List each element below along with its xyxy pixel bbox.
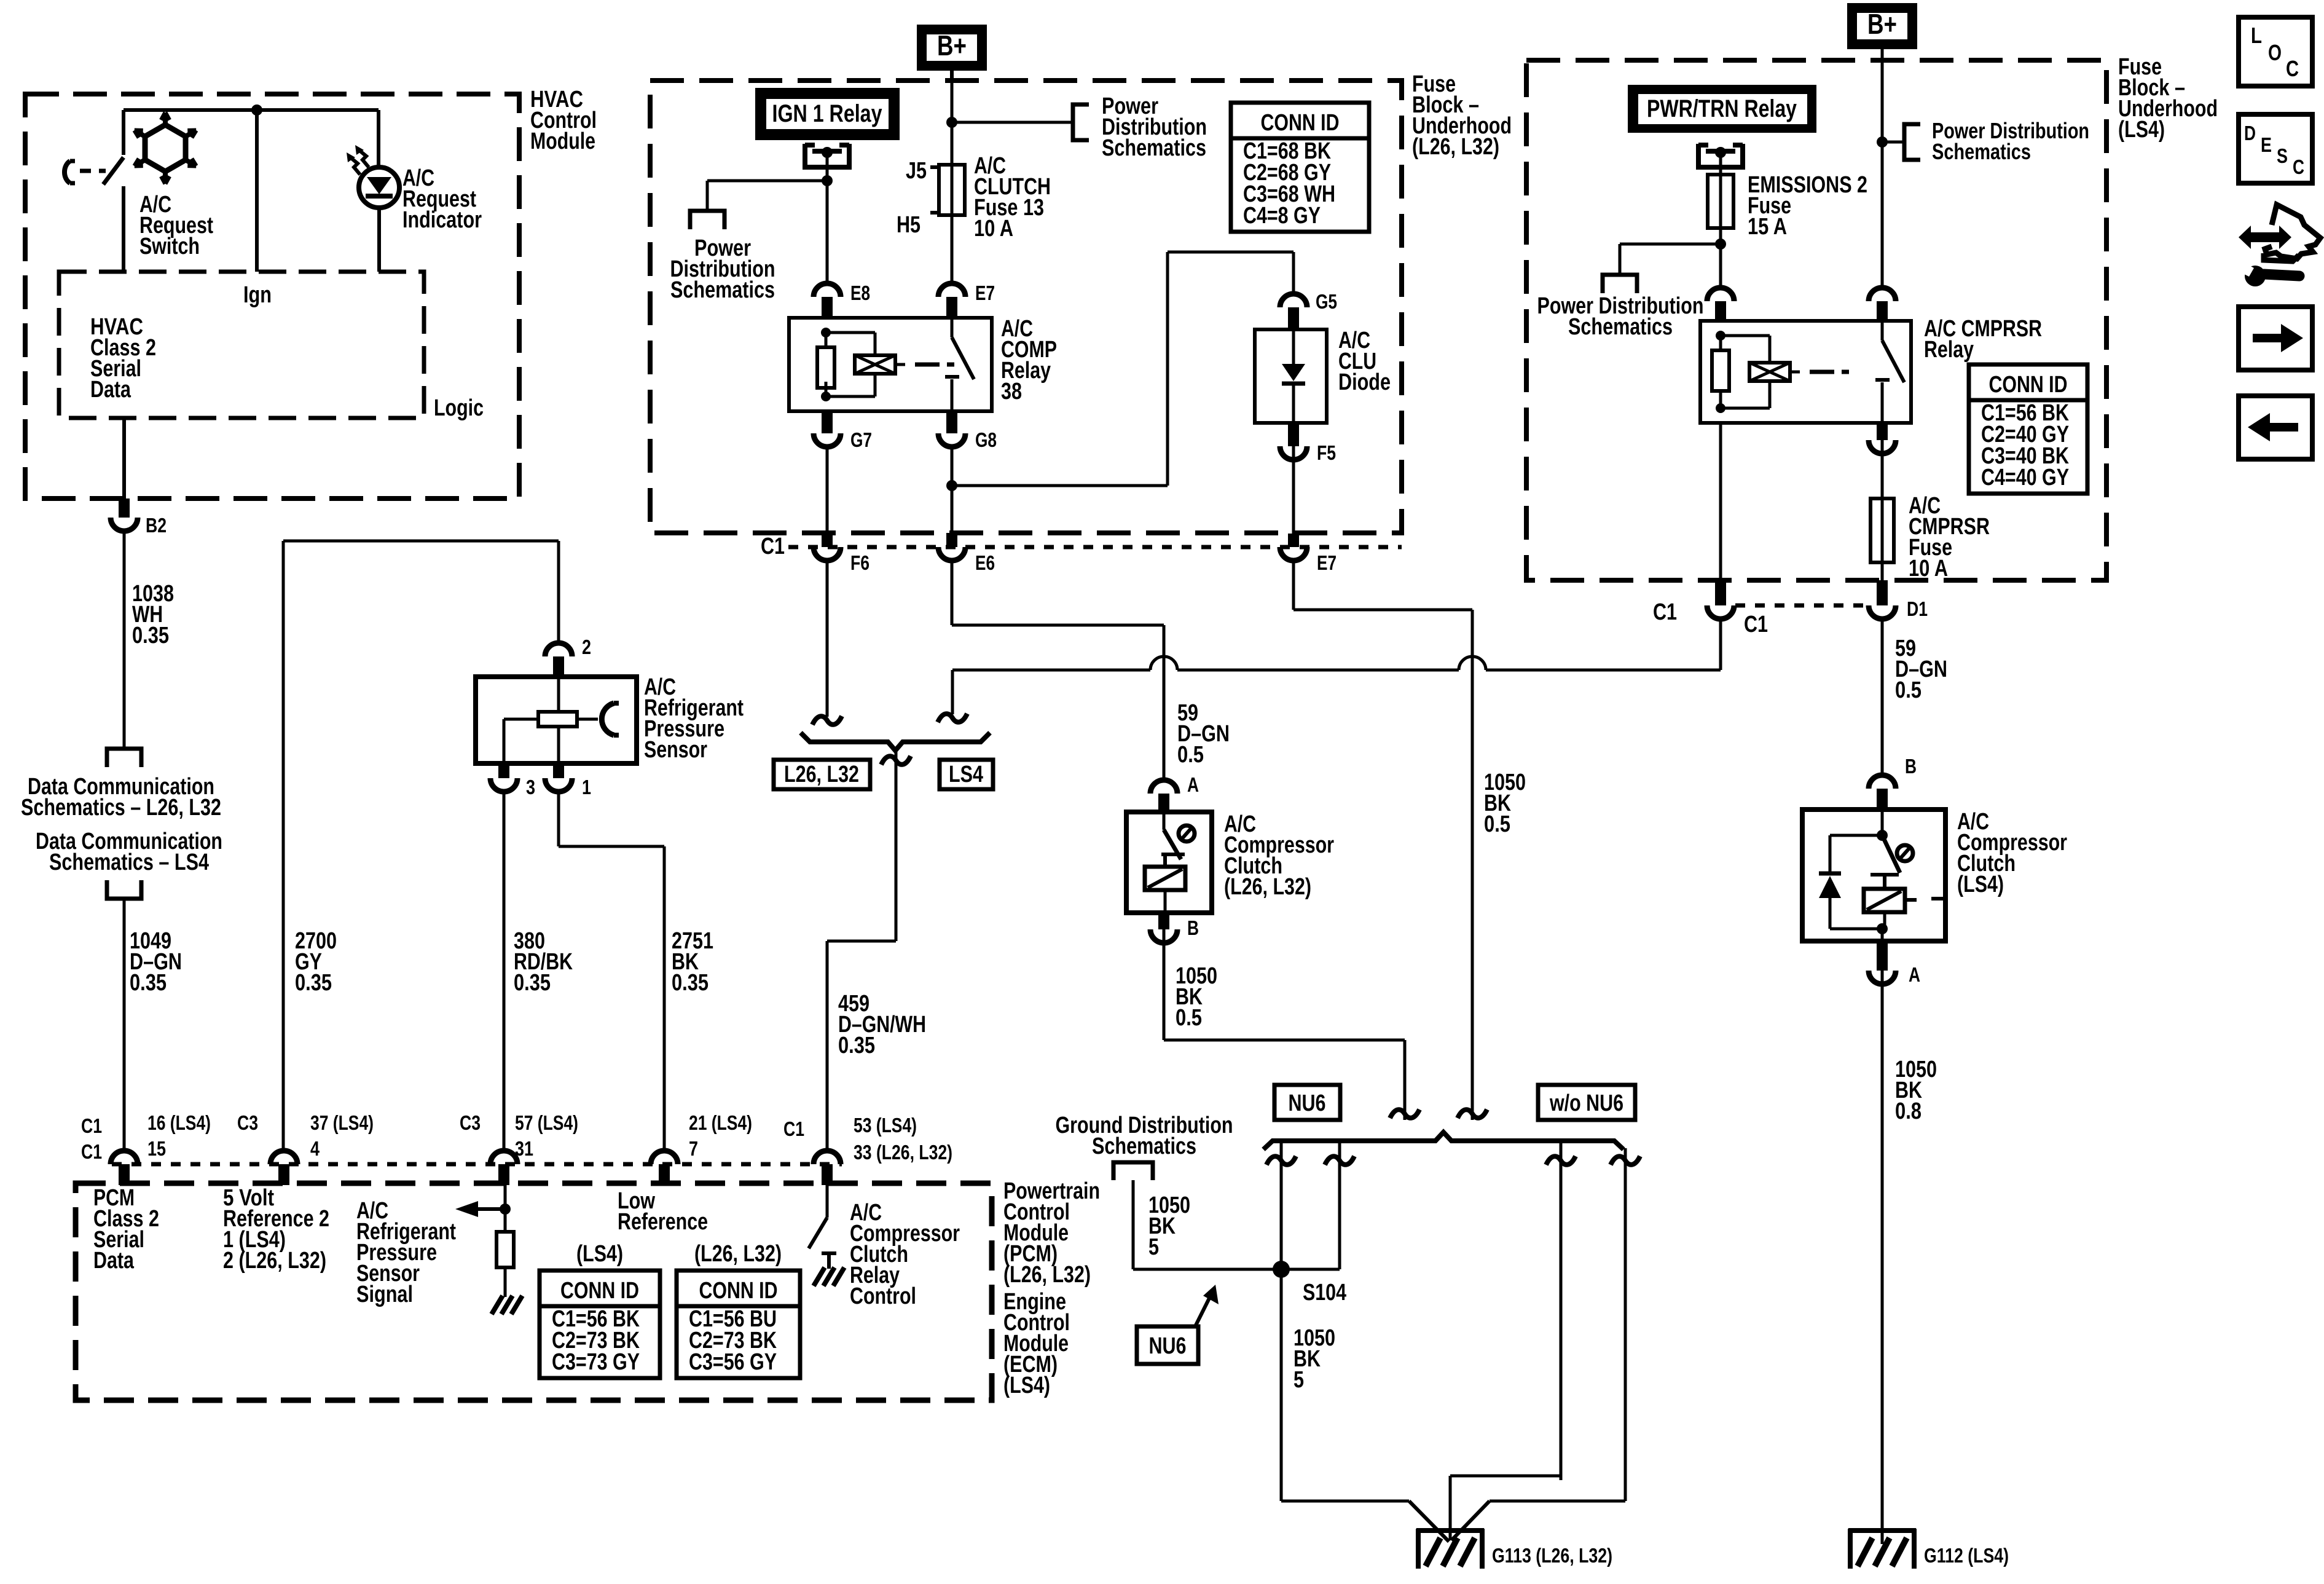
svg-text:C1: C1 bbox=[81, 1114, 102, 1137]
svg-text:4: 4 bbox=[310, 1137, 320, 1160]
svg-text:G112 (LS4): G112 (LS4) bbox=[1924, 1544, 2009, 1567]
NU6 callout box bbox=[1137, 1326, 1198, 1364]
svg-text:0.8: 0.8 bbox=[1895, 1098, 1922, 1124]
svg-text:53 (LS4): 53 (LS4) bbox=[854, 1114, 917, 1137]
previous page icon bbox=[2239, 396, 2312, 459]
svg-text:LS4: LS4 bbox=[949, 762, 983, 787]
svg-text:57 (LS4): 57 (LS4) bbox=[515, 1111, 578, 1134]
bracket to power distribution schematics (B+) bbox=[1073, 104, 1089, 140]
wire PWR/TRN to splice (59 D-GN) bbox=[1719, 620, 1722, 670]
wire w/o NU6 ground 3 bbox=[1560, 1142, 1563, 1480]
wire from ground distribution bbox=[1132, 1180, 1135, 1269]
wire: class 2 serial data out bbox=[122, 418, 126, 515]
node S104 bbox=[1273, 1261, 1290, 1278]
svg-text:(L26, L32): (L26, L32) bbox=[694, 1241, 782, 1267]
LS4 connector line C1-D1 bbox=[1735, 604, 1870, 608]
svg-text:C1: C1 bbox=[1653, 599, 1677, 625]
wire fuse to relay coil bbox=[1719, 228, 1722, 287]
connector arc x=1346 bbox=[814, 1151, 841, 1164]
svg-text:0.5: 0.5 bbox=[1484, 811, 1510, 837]
connector E6 bbox=[946, 533, 957, 547]
wire E7 to ground splice (1050 BK) bbox=[1292, 561, 1295, 610]
svg-text:w/o NU6: w/o NU6 bbox=[1549, 1090, 1623, 1116]
wire from B+ bbox=[950, 71, 954, 81]
w/o NU6 tag box bbox=[1538, 1085, 1635, 1120]
svg-text:G8: G8 bbox=[975, 428, 997, 451]
svg-text:CONN ID: CONN ID bbox=[1261, 110, 1340, 136]
wire from B+ right bbox=[1881, 49, 1884, 286]
sensor signal arrow bbox=[476, 1207, 505, 1211]
svg-text:0.5: 0.5 bbox=[1176, 1005, 1202, 1031]
svg-text:(L26, L32): (L26, L32) bbox=[1412, 134, 1499, 160]
svg-text:16 (LS4): 16 (LS4) bbox=[147, 1111, 211, 1134]
svg-text:CONN ID: CONN ID bbox=[1989, 372, 2068, 398]
svg-text:E6: E6 bbox=[975, 551, 995, 574]
svg-text:Reference: Reference bbox=[618, 1209, 708, 1235]
A/C CMPRSR fuse bbox=[1871, 498, 1894, 562]
svg-text:G113 (L26, L32): G113 (L26, L32) bbox=[1492, 1544, 1612, 1567]
svg-text:B: B bbox=[1905, 755, 1917, 778]
svg-text:B2: B2 bbox=[146, 514, 167, 537]
svg-text:Switch: Switch bbox=[139, 234, 200, 259]
service tool icon bbox=[2239, 226, 2291, 249]
node G8 to diode loop bbox=[946, 480, 957, 491]
svg-text:A: A bbox=[1909, 963, 1920, 986]
node on 57/31 wire bbox=[504, 1185, 507, 1232]
svg-text:Schematics: Schematics bbox=[1568, 314, 1673, 340]
connector arc x=820 bbox=[490, 1151, 517, 1164]
bracket ground distribution bbox=[1113, 1162, 1153, 1180]
svg-text:PWR/TRN Relay: PWR/TRN Relay bbox=[1647, 95, 1797, 122]
battery feed B+ (left) bbox=[917, 25, 987, 71]
connector E7 (relay) bbox=[938, 283, 965, 297]
clutch coil LS4 bbox=[1864, 889, 1905, 912]
svg-text:Logic: Logic bbox=[434, 395, 484, 421]
svg-text:S104: S104 bbox=[1303, 1280, 1346, 1306]
LS4 tag box bbox=[940, 760, 993, 789]
PCM connector line bbox=[112, 1162, 842, 1167]
clutch coil L26 bbox=[1145, 867, 1185, 890]
wire 2751 BK bbox=[557, 792, 560, 846]
wire G7 to F6 bbox=[826, 447, 829, 533]
IGN 1 relay pin bbox=[805, 144, 849, 167]
wire NU6 ground 2 bbox=[1338, 1142, 1341, 1269]
sensor element bbox=[557, 677, 560, 712]
svg-text:5: 5 bbox=[1294, 1367, 1304, 1393]
bracket to power distribution schematics LS4 bbox=[1904, 124, 1920, 160]
wire clutch LS4 to G112 bbox=[1881, 971, 1884, 1544]
wire NU6 ground 1 bbox=[1280, 1142, 1283, 1501]
IGN 1 Relay label box bbox=[755, 88, 900, 140]
svg-text:3: 3 bbox=[526, 776, 535, 798]
A/C refrigerant pressure sensor box bbox=[476, 677, 637, 763]
svg-text:G7: G7 bbox=[850, 428, 872, 451]
connector D1 bbox=[1877, 580, 1888, 605]
svg-text:0.35: 0.35 bbox=[838, 1033, 875, 1058]
connector G7 bbox=[822, 411, 833, 433]
wire S104 to G113 bbox=[1281, 1500, 1409, 1503]
svg-text:C1: C1 bbox=[81, 1140, 102, 1163]
wire PWR/TRN relay coil return bbox=[1719, 423, 1722, 590]
wire end squiggle F6 bbox=[812, 716, 842, 725]
wire E6 branch to clutch A bbox=[951, 561, 954, 625]
connector arc x=462 bbox=[270, 1151, 297, 1164]
svg-text:L26, L32: L26, L32 bbox=[784, 762, 859, 787]
svg-text:(L26, L32): (L26, L32) bbox=[1003, 1262, 1091, 1288]
node to power distribution (emissions) bbox=[1715, 238, 1726, 250]
svg-text:Indicator: Indicator bbox=[402, 207, 482, 233]
LED arrows bbox=[359, 150, 369, 167]
connector 3 sensor bbox=[498, 763, 509, 778]
svg-text:Control: Control bbox=[850, 1283, 916, 1309]
svg-text:5: 5 bbox=[1148, 1234, 1159, 1260]
svg-text:C1: C1 bbox=[1744, 612, 1768, 637]
wire: Ign line bbox=[255, 110, 259, 272]
ground G112 bbox=[1848, 1528, 1916, 1533]
connector B clutch L26 bbox=[1158, 913, 1169, 929]
PCM CONN ID table L26 L32 bbox=[677, 1271, 800, 1378]
ground wires squiggles bbox=[1266, 1156, 1296, 1165]
PCM ECM module box bbox=[76, 1183, 992, 1400]
wire F5 to E7 connector bbox=[1292, 446, 1295, 534]
connector F5 bbox=[1288, 423, 1299, 446]
svg-text:Schematics: Schematics bbox=[1102, 135, 1206, 161]
wire D1 to clutch LS4 bbox=[1881, 619, 1884, 773]
switch actuator dashes bbox=[80, 169, 106, 173]
svg-text:D1: D1 bbox=[1907, 597, 1928, 620]
svg-text:CONN ID: CONN ID bbox=[699, 1278, 778, 1304]
svg-text:1: 1 bbox=[582, 776, 591, 798]
svg-text:Data: Data bbox=[93, 1248, 135, 1274]
svg-text:F6: F6 bbox=[850, 551, 870, 574]
connector B2 bbox=[119, 498, 130, 518]
svg-text:(LS4): (LS4) bbox=[2118, 117, 2165, 143]
svg-text:15 A: 15 A bbox=[1748, 214, 1787, 240]
A/C CLU Diode box bbox=[1255, 329, 1327, 423]
svg-text:Relay: Relay bbox=[1924, 337, 1974, 363]
wire F6 to splice bbox=[826, 561, 829, 717]
svg-text:C1: C1 bbox=[783, 1117, 804, 1140]
clutch coil return LS4 bbox=[1883, 912, 1886, 929]
svg-text:(LS4): (LS4) bbox=[1003, 1373, 1050, 1398]
svg-text:C3=73 GY: C3=73 GY bbox=[552, 1349, 640, 1375]
svg-text:C: C bbox=[2293, 156, 2304, 178]
node clutch LS4 top bbox=[1877, 830, 1888, 841]
A/C request switch blade bbox=[122, 110, 125, 155]
wire from PWR/TRN relay bbox=[1719, 152, 1722, 176]
Fuse Block Underhood LS4 box bbox=[1526, 60, 2106, 580]
svg-text:0.35: 0.35 bbox=[132, 623, 169, 648]
wire end squiggle E7 gnd bbox=[1458, 1109, 1487, 1118]
svg-text:0.35: 0.35 bbox=[514, 970, 551, 996]
svg-text:Ign: Ign bbox=[243, 282, 272, 308]
PWR/TRN Relay label box bbox=[1628, 85, 1816, 133]
clutch switch blade LS4 bbox=[1882, 835, 1900, 873]
connector A clutch L26 bbox=[1150, 780, 1177, 794]
NU6 arrow bbox=[1195, 1293, 1212, 1326]
A/C Compressor Clutch LS4 box bbox=[1802, 810, 1945, 941]
svg-text:0.35: 0.35 bbox=[672, 970, 709, 996]
svg-text:J5: J5 bbox=[906, 158, 927, 184]
next page icon bbox=[2239, 307, 2312, 370]
relay A/C CMPRSR Relay bbox=[1700, 321, 1911, 423]
PCM CONN ID table LS4 bbox=[540, 1271, 660, 1378]
clutch switch blade L26 bbox=[1164, 830, 1181, 859]
bracket to power distribution schematics (IGN1) bbox=[690, 211, 724, 229]
connector F6 bbox=[822, 533, 833, 547]
wire: switch/indicator top rail bbox=[124, 108, 379, 112]
wire end squiggle LS4 feed bbox=[938, 714, 967, 722]
svg-text:Sensor: Sensor bbox=[644, 737, 707, 763]
bracket power distribution (emissions) bbox=[1603, 275, 1637, 293]
splice squiggle bbox=[881, 756, 911, 765]
wire splice to PCM 53/33 bbox=[895, 752, 898, 941]
pull resistor in PCM bbox=[497, 1232, 514, 1267]
wire 2700 GY sensor feed bbox=[282, 541, 285, 1151]
svg-text:Schematics: Schematics bbox=[670, 277, 775, 303]
wire w/o NU6 ground 4 bbox=[1624, 1148, 1627, 1501]
svg-text:0.5: 0.5 bbox=[1895, 677, 1922, 703]
svg-text:F5: F5 bbox=[1317, 441, 1336, 464]
svg-text:Schematics – L26, L32: Schematics – L26, L32 bbox=[21, 795, 221, 821]
connector below relay LS4 bbox=[1877, 423, 1888, 440]
svg-text:7: 7 bbox=[689, 1137, 698, 1160]
svg-text:0.35: 0.35 bbox=[295, 970, 332, 996]
wire clutch B to ground splice bbox=[1163, 929, 1166, 1040]
wire from IGN 1 relay bbox=[826, 152, 829, 282]
Fuse Block Underhood L26 L32 box bbox=[650, 81, 1402, 533]
svg-text:A: A bbox=[1187, 773, 1199, 796]
connector C1 PWR/TRN bbox=[1715, 580, 1726, 605]
svg-text:2: 2 bbox=[582, 636, 591, 658]
svg-text:D: D bbox=[2244, 122, 2256, 144]
DESC icon bbox=[2239, 114, 2312, 183]
svg-text:C: C bbox=[2286, 56, 2299, 81]
snowflake icon bbox=[145, 125, 186, 171]
connector coil PWR/TRN bbox=[1707, 288, 1734, 301]
svg-text:Signal: Signal bbox=[356, 1282, 413, 1307]
svg-text:CONN ID: CONN ID bbox=[560, 1278, 639, 1304]
svg-text:(LS4): (LS4) bbox=[576, 1241, 623, 1267]
connector B clutch LS4 bbox=[1869, 775, 1896, 789]
svg-text:C3=56 GY: C3=56 GY bbox=[689, 1349, 777, 1375]
ground in PCM (sensor) bbox=[492, 1296, 503, 1314]
svg-text:L: L bbox=[2251, 23, 2262, 48]
svg-text:C3: C3 bbox=[460, 1111, 481, 1134]
node to power distribution bbox=[946, 117, 957, 128]
ground splice brace bbox=[1263, 1132, 1623, 1149]
hop over clutch wire bbox=[1150, 656, 1177, 670]
connector G8 bbox=[946, 411, 957, 433]
hop over 1050 BK wire bbox=[1459, 656, 1486, 670]
svg-text:0.5: 0.5 bbox=[1177, 742, 1204, 768]
battery feed B+ (right) bbox=[1847, 3, 1917, 49]
svg-text:E8: E8 bbox=[850, 282, 870, 304]
connector A clutch LS4 bbox=[1877, 941, 1888, 971]
connector E8 bbox=[814, 283, 841, 297]
svg-text:B+: B+ bbox=[937, 30, 967, 61]
wire: 1049 D-GN to PCM bbox=[123, 899, 126, 1151]
svg-text:G5: G5 bbox=[1316, 290, 1337, 313]
svg-text:B: B bbox=[1187, 916, 1199, 939]
HVAC logic box bbox=[59, 272, 424, 418]
svg-text:10 A: 10 A bbox=[974, 216, 1013, 242]
wire diode loop bbox=[952, 484, 1168, 487]
svg-text:Schematics: Schematics bbox=[1092, 1133, 1196, 1159]
CONN ID table fuse block L26 L32 bbox=[1231, 103, 1369, 232]
connector switch PWR/TRN bbox=[1869, 288, 1896, 301]
CONN ID table LS4 fuse block bbox=[1969, 364, 2087, 494]
svg-text:E7: E7 bbox=[1317, 551, 1337, 574]
LOC icon bbox=[2239, 17, 2312, 86]
A/C request indicator LED bbox=[377, 110, 380, 167]
bracket to data communication schematics bbox=[107, 749, 141, 767]
svg-text:Schematics: Schematics bbox=[1932, 139, 2031, 164]
svg-text:Data: Data bbox=[90, 377, 132, 403]
svg-text:C4=8 GY: C4=8 GY bbox=[1243, 203, 1321, 229]
ground in PCM (relay control) bbox=[814, 1267, 825, 1286]
svg-text:S: S bbox=[2277, 144, 2288, 167]
A/C CLUTCH fuse 13 bbox=[951, 166, 954, 184]
svg-text:E7: E7 bbox=[975, 282, 995, 304]
node to power distribution (IGN1) bbox=[822, 175, 833, 186]
fuse block connector line C1 bbox=[788, 545, 1402, 550]
svg-text:B+: B+ bbox=[1867, 8, 1897, 40]
svg-text:IGN 1 Relay: IGN 1 Relay bbox=[772, 100, 883, 127]
HVAC Control Module box bbox=[25, 94, 519, 498]
bracket from data communication schematics bbox=[107, 880, 141, 899]
svg-text:15: 15 bbox=[147, 1137, 166, 1160]
svg-text:37 (LS4): 37 (LS4) bbox=[310, 1111, 374, 1134]
svg-text:Module: Module bbox=[530, 128, 595, 154]
splice brace bbox=[801, 733, 990, 751]
svg-text:31: 31 bbox=[515, 1137, 533, 1160]
svg-text:E: E bbox=[2261, 133, 2272, 156]
svg-text:Schematics – LS4: Schematics – LS4 bbox=[49, 849, 209, 875]
wire relay to fuse LS4 bbox=[1881, 440, 1884, 498]
wire G8 to E6 bbox=[951, 447, 954, 533]
svg-text:NU6: NU6 bbox=[1149, 1333, 1187, 1359]
connector G5 bbox=[1280, 294, 1307, 307]
L26 L32 tag box bbox=[774, 760, 870, 789]
A/C Compressor Clutch L26 L32 box bbox=[1126, 812, 1212, 913]
svg-text:21 (LS4): 21 (LS4) bbox=[689, 1111, 752, 1134]
A/C compressor clutch relay control switch bbox=[826, 1185, 829, 1218]
svg-text:10 A: 10 A bbox=[1909, 556, 1948, 581]
connector E7 (bottom) bbox=[1288, 534, 1299, 547]
wire 380 RD/BK bbox=[503, 792, 506, 1151]
svg-text:Diode: Diode bbox=[1338, 369, 1391, 395]
A/C request switch hook terminal bbox=[65, 161, 70, 183]
ground G113 bbox=[1416, 1528, 1484, 1533]
svg-text:38: 38 bbox=[1001, 379, 1022, 404]
svg-text:0.35: 0.35 bbox=[130, 970, 167, 996]
svg-text:33 (L26, L32): 33 (L26, L32) bbox=[854, 1141, 952, 1164]
svg-text:C3: C3 bbox=[237, 1111, 258, 1134]
connector 1 sensor bbox=[553, 763, 564, 778]
svg-text:C4=40 GY: C4=40 GY bbox=[1981, 465, 2069, 491]
svg-text:(LS4): (LS4) bbox=[1957, 872, 2004, 897]
svg-text:(L26, L32): (L26, L32) bbox=[1224, 874, 1311, 900]
svg-text:2 (L26, L32): 2 (L26, L32) bbox=[223, 1248, 326, 1274]
NU6 tag box bbox=[1274, 1085, 1340, 1120]
wire fuse to E7 bbox=[951, 215, 954, 283]
svg-text:C1: C1 bbox=[761, 534, 785, 559]
wire end squiggle clutch gnd bbox=[1390, 1109, 1419, 1118]
relay A/C COMP Relay bbox=[789, 318, 992, 411]
clutch diode LS4 bbox=[1830, 834, 1882, 837]
svg-text:H5: H5 bbox=[897, 212, 921, 238]
node: Ign junction bbox=[251, 104, 262, 116]
connector arc x=1081 bbox=[651, 1151, 678, 1164]
connector arc x=202 bbox=[111, 1151, 138, 1164]
node to power distribution LS4 bbox=[1877, 136, 1888, 148]
connector 2 sensor bbox=[545, 643, 572, 656]
EMISSIONS 2 fuse bbox=[1708, 175, 1733, 228]
svg-text:O: O bbox=[2268, 40, 2282, 65]
svg-text:NU6: NU6 bbox=[1289, 1090, 1326, 1116]
PWR/TRN relay pin bbox=[1698, 144, 1743, 167]
